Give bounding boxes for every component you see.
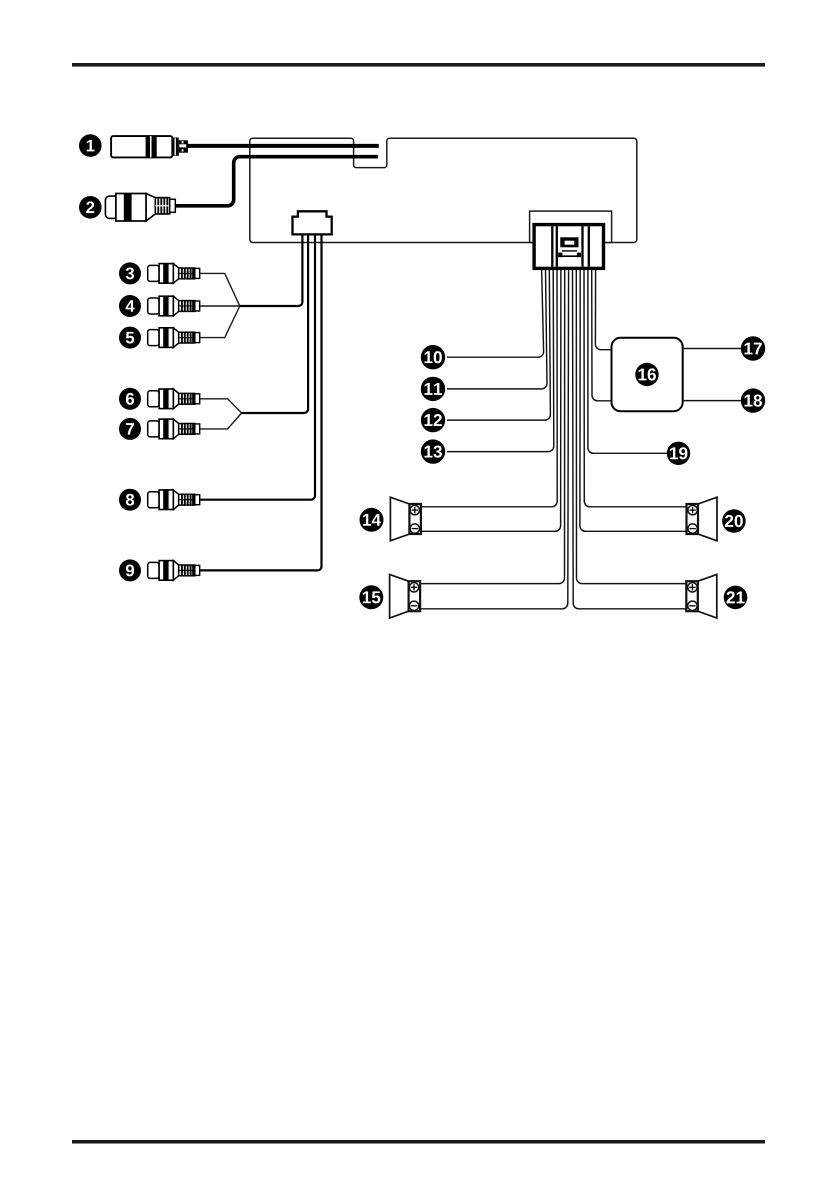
bottom rule bbox=[72, 1140, 765, 1144]
wire A (to plugs 3/4/5) bbox=[240, 234, 303, 306]
RCA plug 9 bbox=[148, 561, 200, 581]
badge 3 bbox=[119, 262, 141, 284]
RCA plug 8 bbox=[148, 490, 200, 510]
wire from connector 2 (power antenna / amp lead) bbox=[175, 157, 378, 206]
badge 15 bbox=[359, 585, 383, 609]
speaker 15 (rear left) bbox=[390, 574, 409, 618]
wire 15+ (rear left speaker +) bbox=[420, 269, 565, 584]
wire to plug 6 bbox=[200, 399, 242, 413]
wire 20+ (front right speaker +) bbox=[584, 269, 687, 507]
wire 17 bbox=[683, 348, 741, 350]
wire 21+ (rear right speaker +) bbox=[576, 269, 686, 584]
wire from connector 1 (antenna lead) bbox=[188, 144, 379, 148]
wire 10 (yellow/battery) bbox=[447, 269, 544, 358]
badge 20 bbox=[722, 509, 746, 533]
4-pin connector (line output plug) bbox=[293, 211, 332, 234]
speaker 21 (rear right) bbox=[698, 574, 717, 618]
badge 13 bbox=[421, 439, 445, 463]
wire to plug 7 bbox=[200, 413, 242, 429]
top rule bbox=[72, 63, 765, 67]
wire D (to plug 9) bbox=[200, 234, 322, 570]
badge 11 bbox=[421, 377, 445, 401]
speaker 20 (front right) bbox=[698, 497, 717, 541]
wire 19 bbox=[588, 269, 667, 454]
wire 12 bbox=[447, 269, 550, 421]
RCA plug 4 bbox=[148, 296, 200, 316]
badge 1 bbox=[79, 134, 102, 157]
wire C (to plug 8) bbox=[200, 234, 315, 499]
wire 20- (front right speaker -) bbox=[580, 269, 687, 532]
wire 18 bbox=[683, 400, 741, 402]
wire 13 bbox=[447, 269, 554, 452]
badge 12 bbox=[421, 408, 445, 432]
RCA plug 5 bbox=[148, 328, 200, 348]
badge 2 bbox=[79, 196, 102, 219]
badge 4 bbox=[119, 295, 141, 317]
badge 17 bbox=[741, 336, 765, 360]
speaker 14 (front left) bbox=[390, 497, 409, 541]
wire to plug 3 bbox=[200, 273, 240, 306]
head unit (rear view) outline bbox=[250, 138, 637, 242]
RCA plug 6 bbox=[148, 389, 200, 409]
RCA plug 7 bbox=[148, 419, 200, 439]
connector 1 (antenna plug) bbox=[111, 136, 188, 157]
ISO harness connector plug bbox=[534, 225, 603, 269]
wire 21- (rear right speaker -) bbox=[573, 269, 687, 609]
badge 8 bbox=[119, 489, 141, 511]
wire B (to plugs 6/7) bbox=[242, 234, 309, 413]
badge 16 bbox=[635, 363, 658, 386]
wire to remote box (lower) bbox=[592, 269, 612, 401]
RCA plug 3 bbox=[148, 264, 200, 284]
badge 18 bbox=[741, 388, 765, 412]
badge 19 bbox=[667, 442, 690, 465]
ISO socket on head unit bbox=[530, 211, 612, 242]
wire 11 bbox=[447, 269, 547, 389]
badge 5 bbox=[119, 327, 141, 349]
wire 14+ (front left speaker +) bbox=[421, 269, 557, 507]
badge 7 bbox=[119, 418, 141, 440]
wire to plug 4 bbox=[200, 305, 240, 307]
wire to remote box (upper) bbox=[595, 269, 611, 350]
badge 14 bbox=[360, 508, 384, 532]
steering remote interface box bbox=[612, 338, 683, 411]
wire 15- (rear left speaker -) bbox=[420, 269, 568, 609]
badge 10 bbox=[421, 345, 445, 369]
wire to plug 5 bbox=[200, 306, 240, 338]
badge 6 bbox=[119, 388, 141, 410]
badge 9 bbox=[119, 559, 141, 581]
wire 14- (front left speaker -) bbox=[421, 269, 561, 532]
connector 2 (plug) bbox=[105, 194, 175, 222]
badge 21 bbox=[724, 586, 748, 610]
